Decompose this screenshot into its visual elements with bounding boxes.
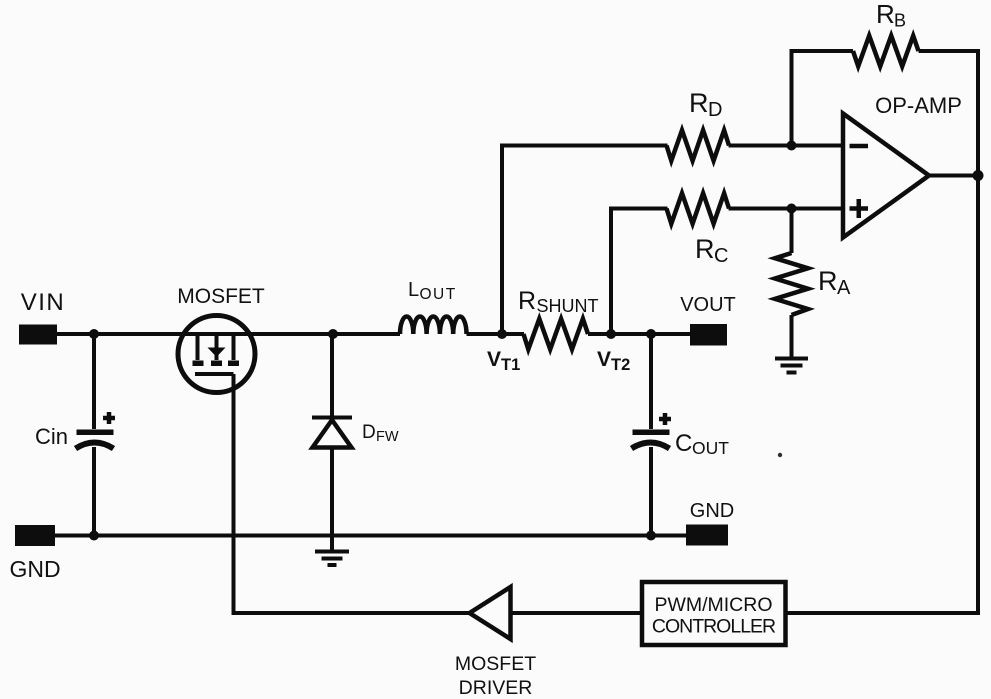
wire gate to driver bbox=[234, 374, 471, 613]
node switch junction bbox=[328, 329, 338, 339]
node output junction bbox=[973, 170, 984, 181]
svg-text:DRIVER: DRIVER bbox=[459, 677, 533, 699]
svg-text:GND: GND bbox=[690, 500, 734, 522]
transistor MOSFET Q1 bbox=[178, 316, 255, 393]
ground under RA bbox=[775, 359, 808, 373]
svg-text:GND: GND bbox=[9, 556, 60, 582]
svg-text:MOSFET: MOSFET bbox=[455, 653, 536, 675]
svg-text:CONTROLLER: CONTROLLER bbox=[652, 616, 776, 638]
resistor RC bbox=[667, 193, 730, 224]
inductor LOUT bbox=[400, 316, 467, 334]
terminal VIN bbox=[19, 325, 57, 345]
resistor RD bbox=[667, 130, 730, 161]
svg-text:L: L bbox=[408, 279, 419, 301]
svg-text:T1: T1 bbox=[501, 356, 520, 374]
stray speck artifact bbox=[778, 453, 782, 457]
wire controller to driver bbox=[511, 611, 643, 615]
svg-text:T2: T2 bbox=[611, 356, 630, 374]
wire VT1 to RD bbox=[502, 146, 668, 335]
buffer MOSFET DRIVER bbox=[470, 587, 511, 639]
ground under diode bbox=[315, 552, 349, 566]
svg-text:OP-AMP: OP-AMP bbox=[875, 93, 962, 118]
block PWM/MICRO CONTROLLER bbox=[642, 582, 786, 645]
wire COUT branch bbox=[649, 334, 653, 535]
wire RC to opamp plus bbox=[729, 207, 844, 211]
svg-text:OUT: OUT bbox=[420, 286, 457, 303]
svg-text:Cin: Cin bbox=[35, 424, 68, 449]
terminal GND left bbox=[15, 525, 55, 546]
svg-text:B: B bbox=[894, 11, 906, 31]
svg-text:V: V bbox=[597, 348, 611, 371]
wire output down to controller bbox=[785, 176, 978, 614]
node Cin-gnd junction bbox=[89, 531, 99, 541]
node input junction bbox=[89, 329, 99, 339]
svg-text:R: R bbox=[876, 0, 895, 29]
node opamp minus junction bbox=[787, 141, 797, 151]
svg-text:V: V bbox=[487, 348, 501, 371]
svg-text:VOUT: VOUT bbox=[680, 294, 736, 316]
resistor RB bbox=[853, 36, 919, 67]
svg-text:SHUNT: SHUNT bbox=[537, 296, 599, 316]
wire opamp output bbox=[929, 174, 978, 178]
node opamp plus junction bbox=[787, 204, 797, 214]
capacitor Cin bbox=[76, 412, 116, 449]
node COUT-gnd junction bbox=[646, 531, 656, 541]
svg-text:R: R bbox=[695, 234, 715, 264]
svg-text:D: D bbox=[362, 422, 376, 443]
wire diode branch bbox=[330, 334, 334, 551]
resistor RA bbox=[775, 253, 808, 315]
node VT1 bbox=[497, 329, 507, 339]
wire top rail VIN to VOUT bbox=[57, 332, 690, 336]
svg-text:VIN: VIN bbox=[21, 289, 66, 316]
wire VT2 to RC bbox=[611, 209, 668, 335]
svg-text:R: R bbox=[818, 266, 838, 296]
diode DFW bbox=[312, 418, 352, 448]
svg-text:A: A bbox=[837, 277, 851, 299]
terminal VOUT bbox=[690, 324, 727, 346]
wire RA branch bbox=[790, 209, 794, 358]
op-amp U1 bbox=[843, 114, 929, 238]
svg-text:C: C bbox=[675, 430, 692, 457]
capacitor COUT bbox=[632, 413, 672, 449]
wire RD to opamp minus bbox=[729, 144, 844, 148]
wire bottom rail bbox=[55, 534, 686, 538]
svg-text:R: R bbox=[689, 88, 709, 118]
svg-text:MOSFET: MOSFET bbox=[177, 285, 265, 308]
wire feedback loop bbox=[792, 51, 979, 176]
svg-text:FW: FW bbox=[376, 429, 399, 445]
svg-text:OUT: OUT bbox=[692, 438, 729, 458]
wire input vertical bbox=[92, 334, 96, 535]
svg-text:PWM/MICRO: PWM/MICRO bbox=[654, 594, 772, 616]
node VT2 bbox=[606, 329, 616, 339]
svg-text:C: C bbox=[714, 245, 728, 267]
svg-text:R: R bbox=[518, 287, 536, 315]
terminal GND right bbox=[686, 525, 728, 546]
node COUT junction bbox=[646, 329, 656, 339]
svg-text:D: D bbox=[708, 99, 722, 121]
resistor RSHUNT bbox=[524, 319, 589, 350]
